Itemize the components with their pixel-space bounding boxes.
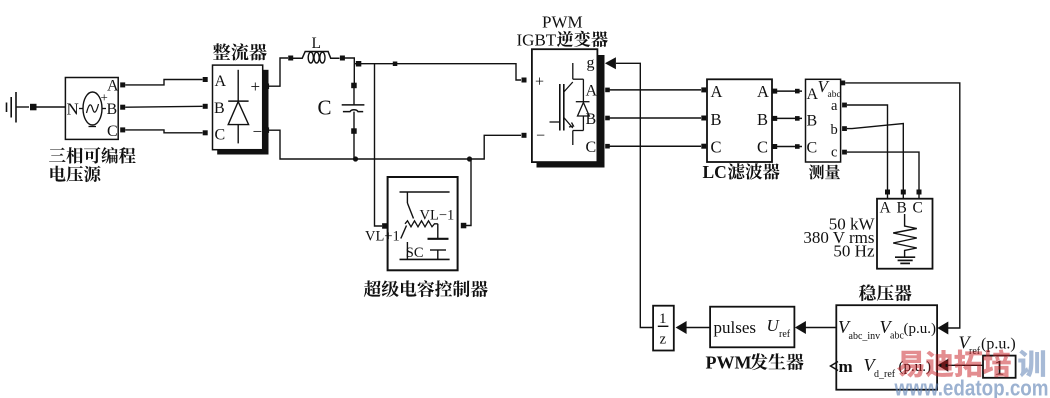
- svg-text:A: A: [711, 82, 723, 101]
- regulator Vabc input arrow: [937, 322, 948, 335]
- svg-text:+: +: [535, 74, 544, 91]
- svg-text:a: a: [831, 98, 838, 114]
- svg-text:LC: LC: [703, 162, 727, 182]
- svg-text:ref: ref: [779, 329, 791, 340]
- supercap controller output port: [461, 223, 467, 229]
- wire rectifier + up to inductor: [266, 58, 288, 86]
- load input port A: [885, 190, 890, 195]
- measurement output port Vabc: [840, 81, 845, 86]
- svg-text:B: B: [214, 100, 225, 117]
- label: voltage regulator: [859, 284, 912, 301]
- watermark: [897, 349, 1011, 377]
- wire source B to rectifier B: [125, 105, 202, 108]
- svg-text:c: c: [831, 145, 837, 161]
- svg-text:C: C: [215, 127, 226, 144]
- PWM IGBT inverter block: [532, 49, 605, 167]
- label: three-phase programmable voltage source: [49, 147, 136, 182]
- load input port B: [901, 190, 906, 195]
- wire inverter C to LC filter C: [606, 145, 701, 147]
- wire DC+ to capacitor: [353, 64, 355, 83]
- LC filter output port C: [772, 144, 777, 149]
- wire LC B to measurement B: [777, 117, 802, 119]
- svg-text:B: B: [711, 110, 722, 129]
- regulator Vd_ref input arrow: [937, 359, 948, 372]
- capacitor top port: [351, 83, 357, 89]
- svg-text:C: C: [711, 138, 722, 157]
- junction: supercap return on DC- bus: [467, 156, 472, 161]
- label: PWM generator: [706, 353, 804, 373]
- three-phase load block 50kW: [877, 199, 933, 269]
- source output port A: [120, 82, 125, 87]
- svg-text:C: C: [586, 139, 597, 156]
- LC filter output port A: [772, 89, 777, 94]
- wire source A to rectifier A: [125, 80, 202, 85]
- svg-text:IGBT: IGBT: [517, 31, 557, 50]
- LC filter output port B: [772, 116, 777, 121]
- inductor L: [293, 52, 340, 63]
- svg-text:A: A: [215, 73, 227, 90]
- unit delay input arrow: [676, 321, 687, 334]
- capacitor bottom port: [351, 128, 357, 134]
- measurement output port c: [842, 150, 847, 155]
- inductor right port: [340, 56, 345, 61]
- svg-text:N: N: [67, 100, 79, 119]
- wire ground to source N input: [37, 106, 66, 108]
- label Vref(p.u.): [959, 333, 1016, 358]
- wire DC+ bus down to supercap controller input VL+1: [375, 64, 383, 226]
- regulator m output arrow: [831, 362, 839, 371]
- svg-text:−: −: [536, 128, 545, 145]
- load input port C: [917, 190, 922, 195]
- LC filter input port C: [701, 144, 706, 149]
- rectifier input port B: [203, 104, 208, 109]
- svg-text:d_ref: d_ref: [874, 369, 896, 380]
- svg-text:abc: abc: [890, 331, 904, 342]
- inverter - input port: [522, 133, 527, 138]
- label: supercapacitor controller: [364, 280, 488, 297]
- svg-text:PWM: PWM: [542, 13, 583, 32]
- svg-text:C: C: [318, 96, 332, 120]
- PWM generator Uref input arrow: [795, 321, 806, 334]
- wire capacitor to DC- bus: [353, 134, 355, 160]
- supercapacitor controller block: [388, 177, 458, 270]
- LC filter input port A: [701, 87, 706, 92]
- node: DC+ bus junction at capacitor: [356, 61, 362, 67]
- wire regulator Vabc_inv output to PWM generator: [805, 327, 837, 329]
- node on DC+ bus: [393, 62, 398, 67]
- svg-text:B: B: [757, 110, 768, 129]
- unit delay 1/z block: [653, 306, 674, 351]
- wire LC A to measurement A: [777, 90, 802, 92]
- wire measurement a to load A: [847, 105, 888, 191]
- inverter output port C: [598, 144, 603, 149]
- junction: capacitor on DC- bus: [353, 156, 358, 161]
- PWM generator block: [710, 307, 794, 348]
- source output port C: [120, 127, 125, 132]
- svg-text:SC: SC: [406, 245, 424, 261]
- svg-text:B: B: [586, 111, 597, 128]
- wire DC+ bus to inverter +: [354, 64, 521, 80]
- inverter + input port: [522, 78, 527, 83]
- svg-text:www.edatop.com: www.edatop.com: [894, 376, 1049, 398]
- rectifier block (universal bridge): [213, 65, 269, 154]
- inverter g input arrow: [605, 57, 616, 69]
- rectifier output port +: [264, 84, 270, 90]
- svg-text:B: B: [807, 113, 818, 130]
- wire constant to regulator: [946, 364, 983, 366]
- svg-text:VL−1: VL−1: [420, 208, 455, 224]
- measurement output port b: [842, 126, 847, 131]
- svg-text:A: A: [880, 200, 892, 217]
- svg-text:A: A: [757, 82, 769, 101]
- svg-text:C: C: [807, 140, 818, 157]
- svg-text:+: +: [251, 77, 261, 96]
- capacitor C: [342, 88, 365, 129]
- source output port B: [120, 105, 125, 110]
- svg-text:g: g: [587, 55, 595, 72]
- wire inverter A to LC filter A: [606, 89, 701, 91]
- supercap controller input port: [382, 223, 388, 229]
- svg-text:VL+1: VL+1: [365, 229, 400, 245]
- svg-text:(p.u.): (p.u.): [981, 336, 1016, 353]
- svg-text:PWM: PWM: [706, 353, 752, 373]
- three-phase programmable voltage source block: [65, 78, 119, 141]
- rectifier input port C: [203, 130, 208, 135]
- svg-text:50 Hz: 50 Hz: [833, 242, 875, 261]
- svg-text:b: b: [831, 122, 838, 138]
- LC filter block: [707, 79, 772, 162]
- svg-text:z: z: [660, 332, 667, 348]
- svg-text:C: C: [913, 200, 923, 217]
- wire measurement c to load C: [847, 152, 919, 190]
- wire inverter B to LC filter B: [606, 117, 701, 119]
- wire unit delay to inverter g input: [616, 63, 653, 327]
- svg-text:m: m: [839, 357, 853, 376]
- svg-text:B: B: [107, 101, 118, 118]
- inductor left port: [288, 56, 293, 61]
- load value labels: [803, 215, 875, 261]
- svg-text:A: A: [107, 78, 119, 95]
- wire source C to rectifier C: [125, 130, 202, 133]
- wire inductor to DC+ bus: [345, 58, 355, 64]
- wire rectifier - to DC- bus to inverter -: [266, 130, 521, 159]
- label: rectifier: [213, 43, 267, 60]
- svg-text:L: L: [312, 35, 321, 52]
- label: PWM IGBT inverter: [517, 13, 608, 50]
- svg-text:abc_inv: abc_inv: [849, 331, 881, 342]
- ground symbol: [7, 92, 30, 123]
- wire PWM generator pulses to unit delay: [686, 327, 710, 329]
- LC filter input port B: [701, 116, 706, 121]
- wire LC C to measurement C: [777, 146, 802, 148]
- svg-text:−: −: [253, 122, 263, 141]
- inverter output port A: [598, 87, 603, 92]
- svg-text:C: C: [757, 138, 768, 157]
- label: measurement: [809, 164, 840, 179]
- inverter output port B: [598, 116, 603, 121]
- constant block 1: [983, 356, 1016, 380]
- svg-text:(p.u.): (p.u.): [904, 321, 937, 337]
- wire measurement Vabc to regulator input: [845, 83, 960, 328]
- wire measurement b to load B (diagonal): [847, 124, 903, 191]
- rectifier output port -: [264, 127, 270, 132]
- three-phase V-I measurement block: [806, 77, 841, 162]
- svg-text:1: 1: [659, 311, 667, 327]
- svg-text:pulses: pulses: [714, 318, 757, 337]
- svg-text:C: C: [107, 123, 118, 140]
- wire DC- bus down to supercap controller output VL-1: [466, 159, 471, 226]
- rectifier input port A: [203, 77, 208, 82]
- svg-text:A: A: [586, 83, 598, 100]
- port on ground wire: [30, 104, 37, 111]
- measurement output port a: [842, 103, 847, 108]
- label: LC filter: [703, 162, 780, 182]
- svg-text:B: B: [897, 200, 907, 217]
- voltage regulator block: [836, 305, 937, 390]
